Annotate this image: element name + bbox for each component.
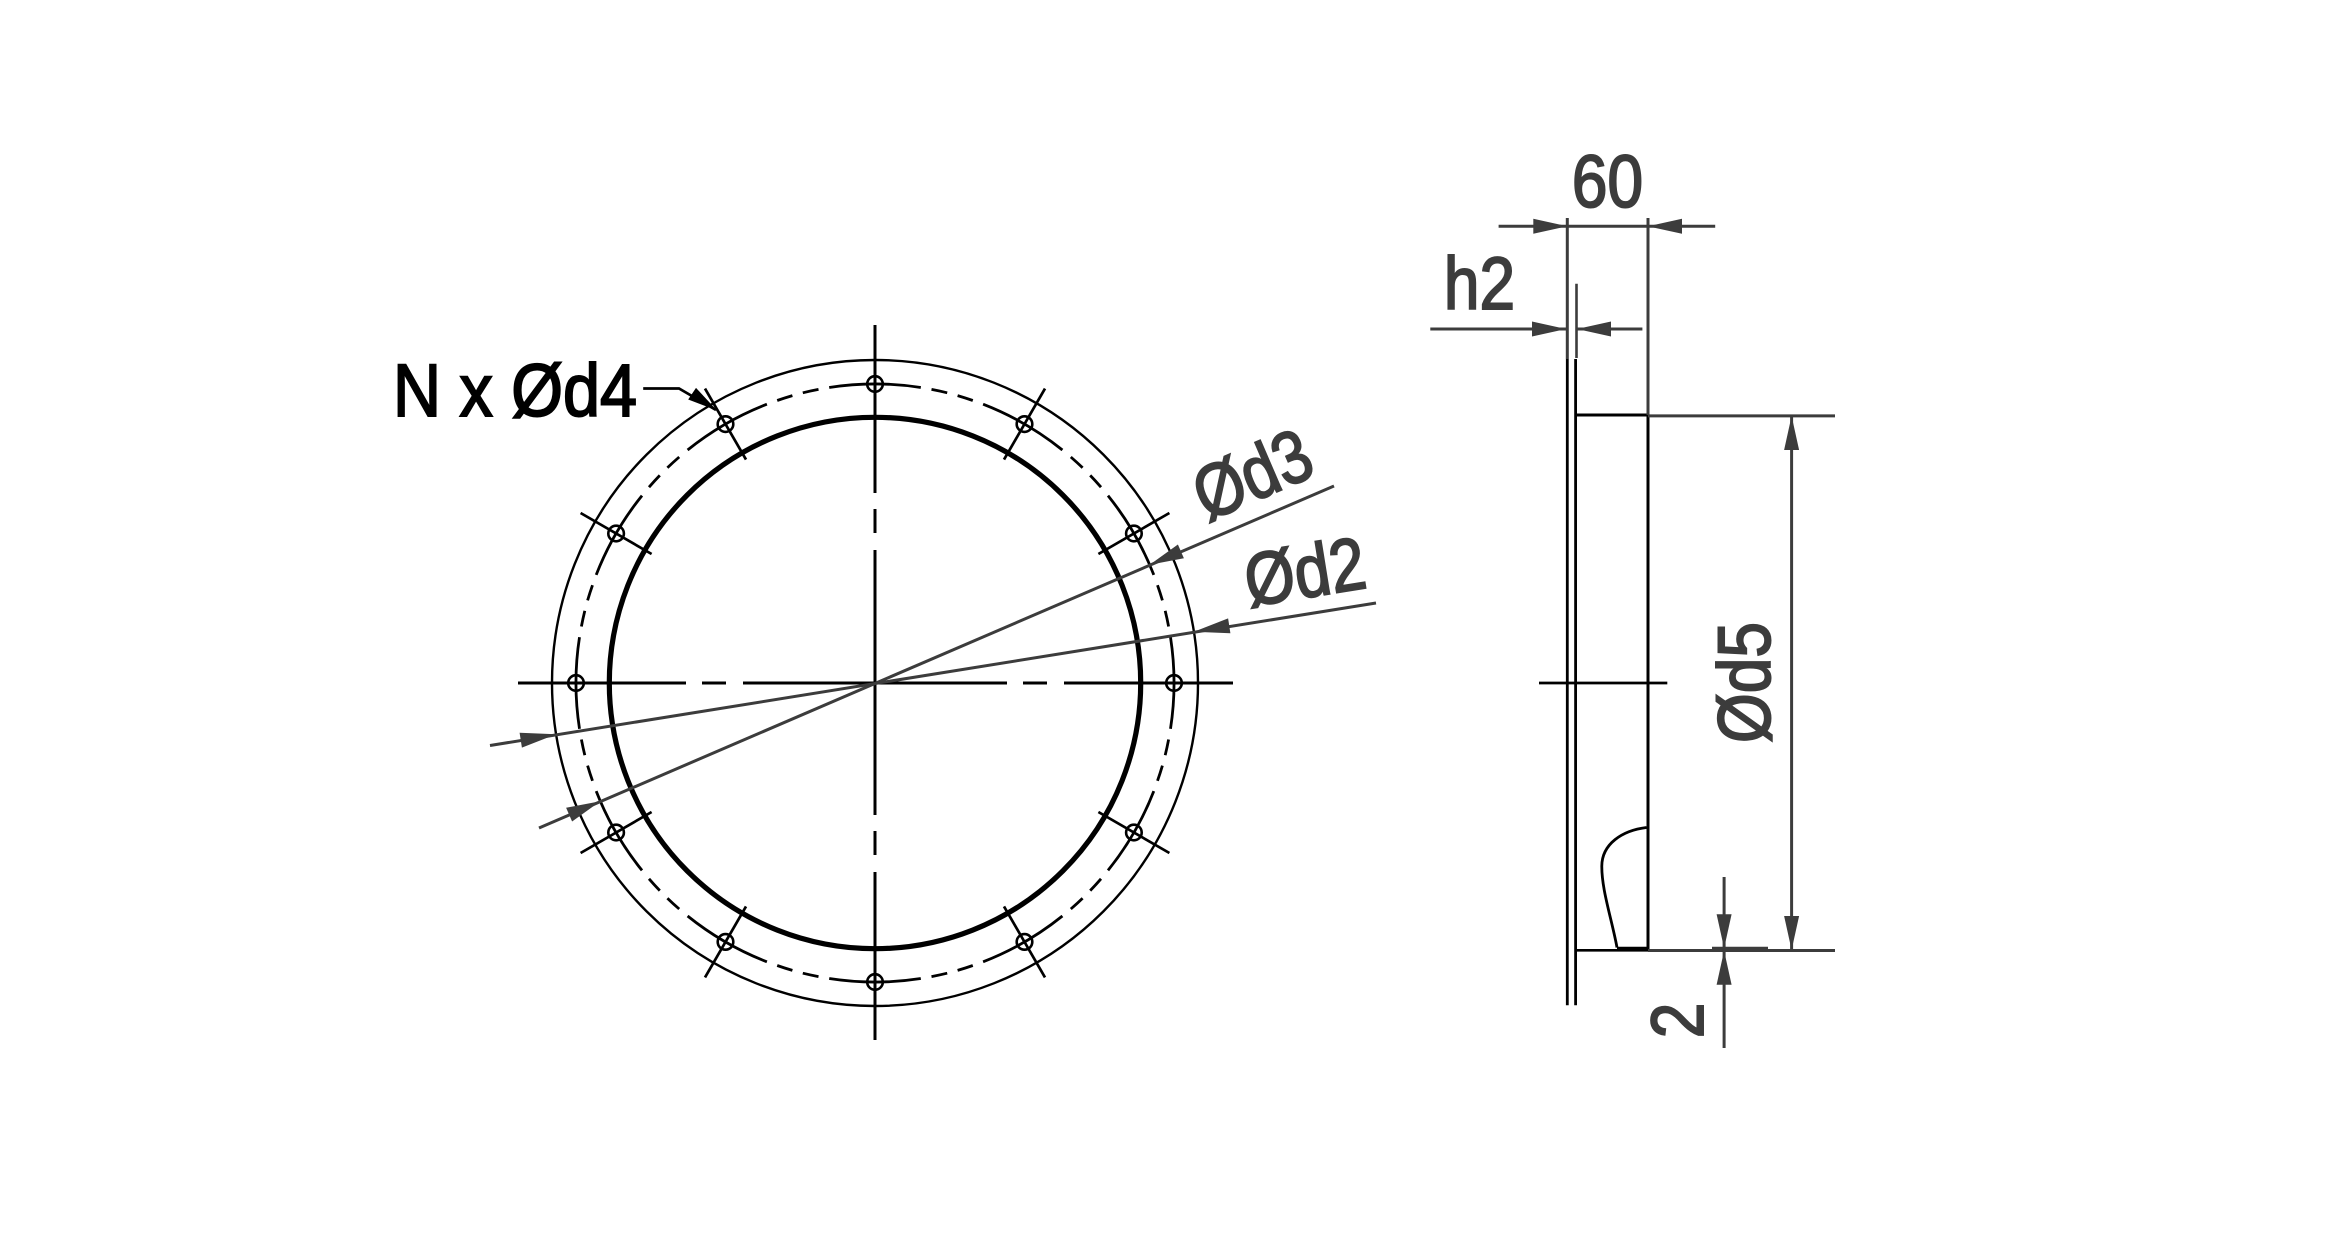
dim 2: lower tail [1723, 951, 1726, 1048]
duct bottom sheet end line [1617, 947, 1649, 949]
Od2 arrow left [520, 733, 557, 748]
bolt circle (dash-dot centerline circle) [576, 384, 1174, 982]
dim 2 arrow lower [1717, 951, 1732, 985]
bolt hole 0deg [1166, 675, 1182, 691]
dim h2: left tail [1430, 328, 1566, 331]
plate left face [1566, 359, 1569, 1005]
radial tick marks at off-axis holes [581, 389, 1170, 978]
bolt hole 30deg [1126, 526, 1142, 542]
tick hole 120deg [705, 389, 746, 460]
dim 60 extension right [1647, 218, 1650, 415]
bolt hole 150deg [608, 526, 624, 542]
leader arrowhead [688, 388, 717, 411]
bolt hole 60deg [1017, 416, 1033, 432]
dim Od5: dimension line [1790, 416, 1793, 950]
dim Od5 arrow bottom [1784, 916, 1799, 950]
svg-text:Ød5: Ød5 [1703, 622, 1787, 743]
svg-text:Ød3: Ød3 [1180, 412, 1324, 537]
inner circle (bore, thick object line) [609, 417, 1140, 948]
dim 2: upper tail [1723, 877, 1726, 948]
outer circle (flange OD) [552, 360, 1198, 1006]
tick hole 150deg [581, 513, 652, 554]
dim h2 extension right [1575, 284, 1578, 358]
dim 60 arrow left [1533, 219, 1567, 234]
dimension line Od3 (bolt circle diameter) [539, 486, 1334, 828]
svg-text:60: 60 [1572, 140, 1643, 224]
bolt hole 120deg [718, 416, 734, 432]
vertical centerline [874, 325, 877, 1040]
svg-text:2: 2 [1636, 1003, 1720, 1039]
bolt hole 270deg [867, 974, 883, 990]
dim Od5 arrow top [1784, 416, 1799, 450]
dim h2 arrow left [1532, 322, 1566, 337]
bolt hole 240deg [718, 934, 734, 950]
dim h2 arrow right [1577, 322, 1611, 337]
dim 60: dimension line [1499, 225, 1716, 228]
tick hole 240deg [705, 906, 746, 977]
duct right edge [1647, 415, 1650, 950]
svg-text:h2: h2 [1444, 242, 1515, 326]
tick hole 300deg [1004, 906, 1045, 977]
dimension line Od2 (outer diameter) [490, 603, 1376, 746]
Od3 arrow lower left [566, 801, 600, 821]
dim 60 extension left [1566, 218, 1569, 359]
Od3 arrow upper right [1150, 545, 1184, 565]
tick hole 330deg [1098, 812, 1169, 853]
dim 60 arrow right [1648, 219, 1682, 234]
tick hole 30deg [1098, 513, 1169, 554]
bolt hole 180deg [568, 675, 584, 691]
bolt hole 210deg [608, 825, 624, 841]
duct bottom line [1576, 949, 1650, 952]
svg-text:N x Ød4: N x Ød4 [393, 349, 637, 433]
bolt holes (12 x) [568, 376, 1182, 990]
bolt hole 330deg [1126, 825, 1142, 841]
dim h2: right tail [1577, 328, 1642, 331]
dim 2: extension line [1712, 947, 1768, 950]
dim Od5 extension top [1648, 414, 1835, 417]
dim Od5 extension bottom [1648, 949, 1835, 952]
tick hole 210deg [581, 812, 652, 853]
bolt hole 300deg [1017, 934, 1033, 950]
tick hole 60deg [1004, 389, 1045, 460]
duct top line [1576, 414, 1650, 417]
plate right face [1574, 359, 1577, 1005]
leader line N x Od4 [643, 389, 716, 411]
horizontal centerline [518, 682, 1233, 685]
dim 2 arrow upper [1717, 914, 1732, 948]
Od2 arrow right [1194, 618, 1231, 633]
side view center tick [1539, 682, 1667, 685]
bolt hole 90deg [867, 376, 883, 392]
spun collar break curve [1602, 828, 1647, 948]
